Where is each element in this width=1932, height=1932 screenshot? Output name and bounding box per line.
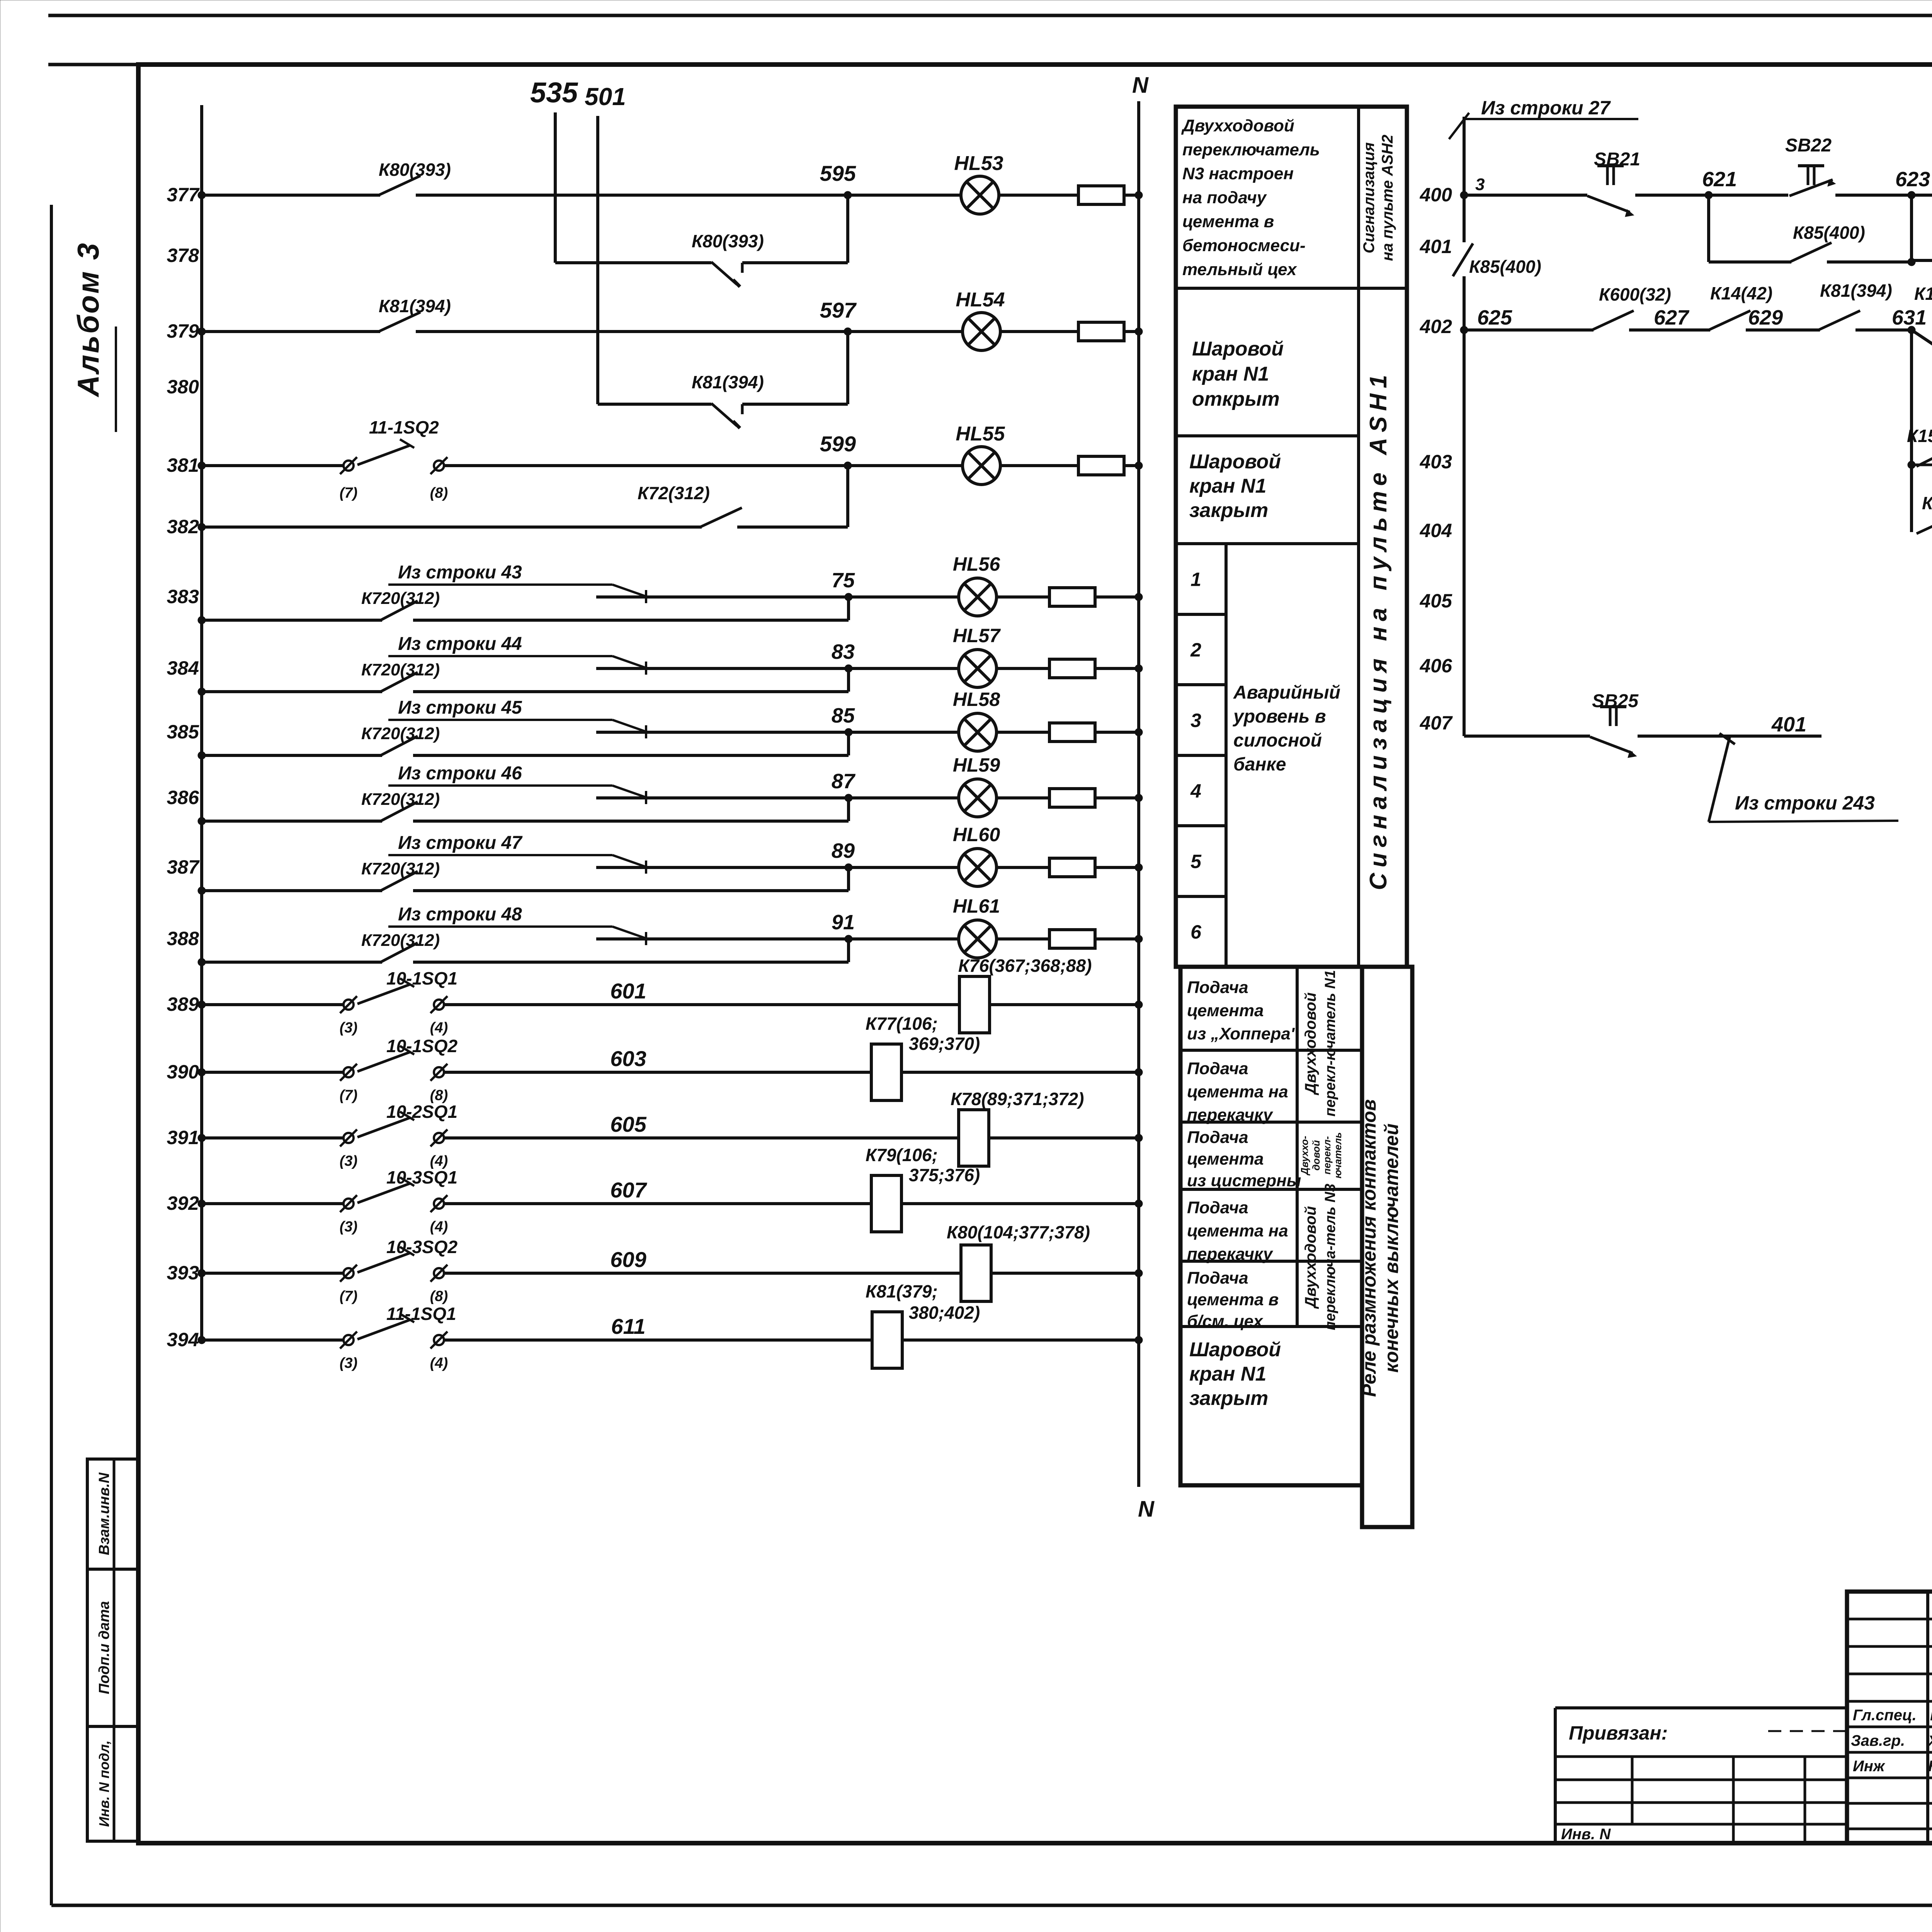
wire SB25 to 401	[1638, 735, 1821, 738]
svg-text:банке: банке	[1233, 754, 1286, 775]
left supply bus	[200, 105, 203, 1340]
lower table right column rele razmnozheniya	[1362, 967, 1412, 1527]
wire row 393 left	[202, 1272, 344, 1275]
contact K81(394) row 380	[711, 403, 737, 426]
wire row 385 lower to riser	[413, 754, 849, 757]
svg-text:388: 388	[167, 928, 199, 949]
wire coil to N bus row 389	[990, 1003, 1139, 1006]
svg-text:385: 385	[167, 721, 200, 743]
lamp HL56	[959, 578, 997, 616]
svg-text:380: 380	[167, 376, 199, 398]
svg-text:закрыт: закрыт	[1189, 499, 1268, 522]
svg-text:цемента в: цемента в	[1182, 212, 1274, 231]
title block frame	[1847, 1592, 1932, 1843]
svg-text:Шаровой: Шаровой	[1189, 1338, 1281, 1361]
svg-text:HL56: HL56	[953, 553, 1000, 575]
svg-text:3: 3	[1475, 175, 1485, 194]
wire row 381 to node 599	[444, 464, 848, 467]
riser to node 91	[847, 939, 850, 962]
limit switch 11-1SQ2 row 381	[344, 461, 354, 471]
svg-text:91: 91	[832, 911, 855, 934]
wire row 384 lower to riser	[413, 690, 849, 693]
wire row 388 bus branch	[202, 961, 382, 964]
svg-text:83: 83	[832, 640, 855, 663]
wire row 392 left	[202, 1202, 344, 1205]
wire row 377 left	[202, 194, 380, 197]
svg-text:605: 605	[610, 1112, 646, 1136]
svg-text:К78(89;371;372): К78(89;371;372)	[951, 1089, 1084, 1109]
node 631	[1908, 326, 1915, 334]
relay coil row 392	[871, 1175, 901, 1232]
wire row 387 lower to riser	[413, 889, 849, 892]
svg-text:391: 391	[167, 1127, 199, 1148]
svg-text:довой: довой	[1310, 1140, 1322, 1170]
wire row 391 left	[202, 1136, 344, 1139]
svg-text:Подача: Подача	[1187, 978, 1248, 997]
wire 605 row 391	[444, 1136, 959, 1139]
wire 629	[1746, 328, 1820, 332]
svg-text:392: 392	[167, 1192, 199, 1214]
wire node 599 to lamp HL55	[848, 464, 963, 467]
wire node line row 386	[596, 796, 958, 799]
lamp HL61	[959, 920, 997, 958]
resistor row 385	[1049, 723, 1095, 742]
resistor row 377	[1078, 186, 1124, 204]
svg-text:уровень в: уровень в	[1233, 706, 1326, 727]
contact K14(42)	[1709, 311, 1750, 330]
lamp HL57	[959, 650, 997, 687]
svg-text:К80(393): К80(393)	[379, 160, 451, 180]
svg-text:380;402): 380;402)	[909, 1303, 980, 1323]
riser to node 83	[847, 668, 850, 692]
relay coil row 391	[959, 1110, 989, 1166]
svg-text:(3): (3)	[340, 1020, 357, 1036]
svg-text:кран N1: кран N1	[1189, 1363, 1266, 1385]
svg-text:597: 597	[820, 298, 857, 322]
svg-text:К80(393): К80(393)	[692, 231, 764, 251]
limit switch 11-1SQ1 row 394	[344, 1335, 354, 1345]
svg-text:ючатель: ючатель	[1332, 1132, 1344, 1179]
svg-text:Из строки 45: Из строки 45	[398, 697, 522, 718]
svg-text:К720(312): К720(312)	[361, 931, 440, 950]
svg-text:К80(104;377;378): К80(104;377;378)	[947, 1222, 1090, 1242]
riser to node 89	[847, 867, 850, 891]
contact K720(312) row 384	[381, 672, 418, 692]
svg-text:10-1SQ1: 10-1SQ1	[386, 968, 457, 988]
node 83	[845, 665, 852, 672]
node 597	[844, 328, 852, 335]
resistor row 386	[1049, 789, 1095, 807]
svg-text:599: 599	[820, 432, 856, 456]
wire node line row 388	[596, 937, 958, 940]
sub rows 1-6	[1225, 544, 1228, 967]
button SB22	[1789, 180, 1833, 196]
svg-text:603: 603	[610, 1046, 646, 1071]
wire row 383 lower to riser	[413, 619, 849, 622]
wire coil to N bus row 390	[901, 1071, 1139, 1074]
svg-text:тельный цех: тельный цех	[1182, 260, 1297, 279]
wire row 377 to node 595	[416, 194, 848, 197]
svg-text:К85(400): К85(400)	[1793, 223, 1865, 243]
right supply bus	[1463, 117, 1466, 242]
node 85	[845, 728, 852, 736]
wire 601 row 389	[444, 1003, 959, 1006]
wire row 380 branch from 501	[598, 403, 711, 406]
limit switch 10-1SQ1 row 389	[344, 1000, 354, 1010]
wire row 381 left	[202, 464, 344, 467]
wire HL65 row	[1912, 259, 1932, 262]
resistor row 387	[1049, 858, 1095, 877]
svg-text:N: N	[1132, 73, 1149, 98]
wire 627	[1629, 328, 1710, 332]
wire row 385 bus branch	[202, 754, 382, 757]
svg-text:Двухходовой: Двухходовой	[1302, 992, 1319, 1095]
wire row 400 start	[1460, 191, 1468, 199]
svg-text:закрыт: закрыт	[1189, 1387, 1268, 1410]
contact K72(312) row 382	[700, 508, 742, 527]
stamp box Vzam.inv.N	[87, 1459, 138, 1569]
contact K81(394)	[1818, 311, 1860, 330]
svg-text:(4): (4)	[430, 1219, 448, 1235]
riser node 595 to row 378	[846, 195, 849, 263]
svg-text:перекл-ючатель N1: перекл-ючатель N1	[1322, 970, 1338, 1116]
svg-text:11-1SQ1: 11-1SQ1	[386, 1304, 456, 1324]
svg-text:Подача: Подача	[1187, 1269, 1248, 1287]
lamp HL60	[959, 849, 997, 886]
svg-text:HL53: HL53	[954, 152, 1003, 175]
lamp HL55	[963, 447, 1000, 485]
svg-text:цемента на: цемента на	[1187, 1221, 1288, 1240]
svg-text:629: 629	[1748, 306, 1783, 329]
svg-text:перекачку: перекачку	[1187, 1245, 1274, 1264]
svg-text:К720(312): К720(312)	[361, 660, 440, 679]
riser 631 down to rows 403-404	[1910, 330, 1913, 532]
wire row 394 left	[202, 1338, 344, 1342]
wire row 382 left	[202, 526, 702, 529]
wire 609 row 393	[444, 1272, 961, 1275]
wire resistor to N bus row 384	[1095, 667, 1139, 670]
svg-text:на подачу: на подачу	[1182, 188, 1267, 207]
limit switch 10-3SQ1 row 392	[344, 1199, 354, 1209]
node 595	[844, 191, 852, 199]
svg-text:Двуххо-: Двуххо-	[1299, 1136, 1310, 1175]
wire HL57 to resistor	[997, 667, 1050, 670]
wire resistor to N bus row 381	[1124, 464, 1139, 467]
svg-text:535: 535	[530, 77, 578, 109]
svg-text:HL60: HL60	[953, 824, 1000, 845]
wire HL61 to resistor	[997, 937, 1050, 940]
wire resistor to N bus row 388	[1095, 937, 1139, 940]
wire resistor to N bus row 383	[1095, 595, 1139, 599]
svg-text:(7): (7)	[340, 1087, 357, 1104]
svg-text:400: 400	[1420, 184, 1452, 206]
svg-text:Подп.и дата: Подп.и дата	[96, 1601, 112, 1694]
svg-text:кран N1: кран N1	[1192, 363, 1269, 385]
contact K720(312) row 387	[381, 871, 418, 891]
contact K81(394) row 379	[379, 312, 420, 332]
svg-text:К720(312): К720(312)	[361, 859, 440, 878]
svg-text:Потехин: Потехин	[1930, 1707, 1932, 1724]
wire resistor to N bus row 386	[1095, 796, 1139, 799]
svg-text:(3): (3)	[340, 1355, 357, 1371]
sheet outer bottom border	[51, 1904, 1932, 1907]
svg-text:89: 89	[832, 839, 855, 862]
wire HL60 to resistor	[997, 866, 1050, 869]
svg-text:4: 4	[1190, 780, 1201, 802]
svg-text:389: 389	[167, 993, 199, 1015]
svg-text:HL58: HL58	[953, 689, 1000, 710]
svg-text:10-1SQ2: 10-1SQ2	[386, 1036, 458, 1056]
svg-text:387: 387	[167, 856, 200, 878]
contact K80(393) row 378	[711, 262, 737, 284]
svg-text:402: 402	[1420, 316, 1452, 337]
wire node 595 to lamp HL53	[848, 194, 961, 197]
svg-text:Хрипушкина: Хрипушкина	[1927, 1733, 1932, 1749]
svg-text:SB21: SB21	[1594, 149, 1640, 170]
svg-text:10-2SQ1: 10-2SQ1	[386, 1102, 457, 1122]
wire node line row 385	[596, 731, 958, 734]
svg-text:N: N	[1138, 1497, 1155, 1522]
svg-text:595: 595	[820, 161, 856, 185]
svg-text:силосной: силосной	[1233, 730, 1322, 751]
svg-text:393: 393	[167, 1262, 199, 1284]
title block left grid	[1926, 1592, 1929, 1843]
node 91	[845, 935, 852, 943]
svg-text:HL57: HL57	[953, 625, 1001, 646]
svg-text:К720(312): К720(312)	[361, 790, 440, 809]
relay coil row 394	[872, 1312, 902, 1368]
svg-text:401: 401	[1771, 713, 1806, 736]
riser 623 to branch	[1910, 195, 1913, 262]
svg-text:(3): (3)	[340, 1219, 357, 1235]
wire 631	[1855, 328, 1912, 332]
svg-text:Из строки 243: Из строки 243	[1735, 792, 1875, 814]
svg-text:Из строки 43: Из строки 43	[398, 562, 522, 583]
limit switch 10-3SQ2 row 393	[344, 1268, 354, 1278]
svg-text:К14(42): К14(42)	[1710, 283, 1772, 303]
riser to node 75	[847, 597, 850, 620]
lamp HL54	[963, 313, 1000, 350]
svg-text:Шаровой: Шаровой	[1189, 451, 1281, 473]
lamp HL53	[961, 176, 999, 214]
relay coil row 393	[961, 1245, 991, 1301]
wire node 597 to lamp HL54	[848, 330, 963, 333]
svg-text:625: 625	[1477, 306, 1512, 329]
contact K80(393) row 377	[379, 176, 420, 195]
svg-text:б/см. цех: б/см. цех	[1187, 1312, 1264, 1331]
svg-text:(8): (8)	[430, 1087, 448, 1104]
svg-text:(8): (8)	[430, 1288, 448, 1304]
node 623	[1908, 191, 1915, 199]
node 75	[845, 593, 852, 601]
svg-text:Зав.гр.: Зав.гр.	[1851, 1732, 1905, 1749]
button SB25	[1590, 737, 1633, 753]
svg-text:Привязан:: Привязан:	[1569, 1722, 1668, 1744]
wire resistor to N bus row 377	[1124, 194, 1139, 197]
svg-text:Аварийный: Аварийный	[1233, 682, 1340, 703]
svg-text:10-3SQ1: 10-3SQ1	[386, 1167, 457, 1187]
svg-text:5: 5	[1190, 851, 1202, 872]
node 621	[1705, 191, 1713, 199]
wire HL54 to resistor	[1000, 330, 1078, 333]
svg-text:407: 407	[1420, 712, 1453, 734]
top band line	[48, 63, 1932, 66]
wire 611 row 394	[444, 1338, 872, 1342]
limit switch 10-1SQ2 row 390	[344, 1067, 354, 1077]
svg-text:конечных выключателей: конечных выключателей	[1381, 1123, 1402, 1372]
svg-text:К81(394): К81(394)	[692, 372, 764, 392]
riser node 597 to row 380	[846, 332, 849, 404]
svg-text:К85(400): К85(400)	[1469, 257, 1541, 277]
svg-text:Из строки 27: Из строки 27	[1481, 97, 1611, 119]
svg-text:381: 381	[167, 454, 199, 476]
svg-text:Альбом 3: Альбом 3	[71, 241, 105, 398]
svg-text:378: 378	[167, 245, 199, 266]
wire resistor to N bus row 379	[1124, 330, 1139, 333]
svg-text:из „Хоппера': из „Хоппера'	[1187, 1024, 1295, 1043]
svg-text:К77(106;: К77(106;	[866, 1014, 938, 1034]
svg-text:631: 631	[1892, 306, 1927, 329]
wire row 390 left	[202, 1071, 344, 1074]
svg-text:переключа-тель N3: переключа-тель N3	[1322, 1184, 1338, 1330]
svg-text:(4): (4)	[430, 1020, 448, 1036]
svg-text:2: 2	[1190, 639, 1201, 661]
wire coil to N bus row 394	[902, 1338, 1139, 1342]
svg-text:HL55: HL55	[956, 423, 1005, 445]
svg-text:627: 627	[1654, 306, 1690, 329]
wire node line row 387	[596, 866, 958, 869]
wire SB21 to node 621	[1635, 194, 1709, 197]
contact K720(312) row 386	[381, 802, 418, 821]
upper table frame	[1176, 107, 1407, 967]
svg-text:Из строки 47: Из строки 47	[398, 833, 523, 853]
lower table frame	[1180, 967, 1362, 1485]
resistor row 379	[1078, 322, 1124, 341]
svg-text:кран N1: кран N1	[1189, 475, 1266, 497]
branch K85(400) row 401	[1707, 195, 1710, 262]
svg-text:382: 382	[167, 516, 199, 537]
svg-text:Двухходовой: Двухходовой	[1181, 116, 1294, 135]
wire HL53 to resistor	[999, 194, 1078, 197]
svg-text:К81(394): К81(394)	[1820, 281, 1892, 301]
lower table rows	[1180, 1049, 1362, 1052]
wire 623 to coil K85	[1912, 194, 1932, 197]
svg-text:11-1SQ2: 11-1SQ2	[369, 417, 439, 437]
svg-text:перекл-: перекл-	[1321, 1136, 1333, 1174]
svg-text:К81(394): К81(394)	[379, 296, 451, 316]
svg-text:Из строки 46: Из строки 46	[398, 763, 522, 784]
wire coil to N bus row 393	[991, 1272, 1139, 1275]
contact K85(400) in bus row 401	[1453, 243, 1473, 276]
svg-text:609: 609	[610, 1247, 646, 1272]
svg-text:Из строки 48: Из строки 48	[398, 904, 522, 925]
stamp box Podp.i data	[87, 1569, 138, 1726]
svg-text:на пульте АSH2: на пульте АSH2	[1379, 135, 1396, 261]
svg-text:(4): (4)	[430, 1153, 448, 1169]
svg-text:369;370): 369;370)	[909, 1034, 980, 1054]
svg-text:цемента: цемента	[1187, 1150, 1264, 1168]
svg-text:404: 404	[1420, 520, 1452, 541]
wire row 386 bus branch	[202, 820, 382, 823]
wire coil to N bus row 391	[989, 1136, 1139, 1139]
svg-text:К220(55): К220(55)	[1922, 493, 1932, 513]
wire row 402 start	[1460, 326, 1468, 334]
wire row 379 left	[202, 330, 380, 333]
svg-text:Инв. N подл,: Инв. N подл,	[96, 1740, 112, 1827]
wire 607 row 392	[444, 1202, 871, 1205]
button SB21	[1587, 196, 1630, 212]
wire row 388 lower to riser	[413, 961, 849, 964]
sheet outer top border	[48, 14, 1932, 17]
contact K150(43) row 402	[1912, 330, 1932, 362]
wire resistor to N bus row 385	[1095, 731, 1139, 734]
wire row 407	[1464, 735, 1590, 738]
relay coil row 390	[871, 1044, 901, 1100]
wire coil to N bus row 392	[901, 1202, 1139, 1205]
wire row 387 bus branch	[202, 889, 382, 892]
svg-text:611: 611	[611, 1314, 645, 1338]
contact K720(312) row 388	[381, 943, 418, 962]
svg-text:HL54: HL54	[956, 289, 1005, 311]
wire row 389 left	[202, 1003, 344, 1006]
svg-text:10-3SQ2: 10-3SQ2	[386, 1237, 458, 1257]
svg-text:85: 85	[832, 704, 855, 727]
svg-text:Реле размножения контактов: Реле размножения контактов	[1358, 1099, 1380, 1397]
wire node line row 384	[596, 667, 958, 670]
svg-text:К76(367;368;88): К76(367;368;88)	[958, 956, 1092, 976]
svg-text:75: 75	[832, 569, 855, 592]
svg-text:601: 601	[610, 979, 646, 1003]
svg-text:386: 386	[167, 787, 200, 808]
svg-text:цемента в: цемента в	[1187, 1290, 1279, 1309]
wire row 378 to node 595 riser	[742, 261, 848, 264]
svg-text:Шаровой: Шаровой	[1192, 338, 1284, 360]
svg-text:87: 87	[832, 770, 856, 793]
lamp HL58	[959, 713, 997, 751]
svg-text:403: 403	[1420, 451, 1452, 473]
svg-text:Сигнализация: Сигнализация	[1361, 142, 1378, 253]
svg-text:SB22: SB22	[1785, 135, 1832, 156]
svg-text:Подача: Подача	[1187, 1128, 1248, 1147]
resistor row 384	[1049, 659, 1095, 678]
svg-text:1: 1	[1190, 569, 1201, 590]
node 89	[845, 864, 852, 871]
wire row 379 to node 597	[416, 330, 848, 333]
node 87	[845, 794, 852, 802]
svg-text:379: 379	[167, 320, 199, 342]
wire row 378 branch from 535	[555, 261, 711, 264]
svg-text:623: 623	[1895, 168, 1930, 191]
svg-text:Гл.спец.: Гл.спец.	[1853, 1707, 1917, 1724]
svg-text:(3): (3)	[340, 1153, 357, 1169]
contact K150(43) row 403	[1912, 464, 1932, 466]
wire 603 row 390	[444, 1071, 871, 1074]
svg-text:Подача: Подача	[1187, 1059, 1248, 1078]
contact K720(312) row 383	[381, 601, 418, 620]
svg-text:(4): (4)	[430, 1355, 448, 1371]
svg-text:HL59: HL59	[953, 754, 1000, 776]
svg-text:383: 383	[167, 586, 199, 607]
svg-text:К150(43): К150(43)	[1907, 426, 1932, 446]
wire node line row 383	[596, 595, 958, 599]
riser to node 85	[847, 732, 850, 755]
wire HL56 to resistor	[997, 595, 1050, 599]
svg-text:384: 384	[167, 657, 199, 679]
privyazan block	[1554, 1708, 1557, 1843]
left N bus	[1137, 101, 1140, 1487]
svg-text:Сигнализация на пульте АSH1: Сигнализация на пульте АSH1	[1365, 369, 1392, 890]
svg-text:501: 501	[585, 83, 626, 111]
